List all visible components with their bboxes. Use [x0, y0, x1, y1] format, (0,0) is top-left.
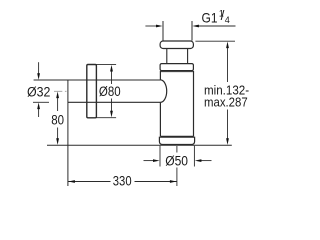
arrowhead: Ø80 down: [110, 111, 113, 118]
component: trap body cup left side with inlet bulge: [160, 71, 166, 136]
component: top flange of trap: [160, 41, 193, 49]
arrowhead: min-max down: [226, 138, 229, 145]
arrowhead: G1 left pointing right: [156, 25, 163, 28]
wire: pipe end vertical + 330 left extension line: [67, 80, 69, 186]
component: thread pipe G1 1/4 (left line): [162, 21, 164, 41]
dimension G1 1/4: left arrow line: [145, 25, 156, 27]
wire: body shoulder line under nut: [160, 71, 193, 73]
label G1 1/4: [202, 8, 230, 26]
dimension 80: lower shaft: [57, 128, 59, 139]
svg-text:G1: G1: [202, 10, 218, 26]
node: pipe centerline (dash-dot): [54, 90, 67, 92]
label 330: [111, 174, 135, 189]
dimension 330: dimension line: [68, 181, 177, 183]
arrowhead: Ø50 right pointing left: [195, 159, 202, 162]
wire: bottom reference line: [47, 144, 232, 146]
dimension min-max: lower shaft: [227, 110, 229, 140]
label Ø50: [164, 153, 191, 169]
component: neck between flange and nut: [167, 49, 188, 64]
arrowhead: 330 right: [170, 180, 177, 183]
dimension Ø32: lower arrow shaft: [38, 109, 40, 118]
wire: wall pipe bottom line: [68, 101, 160, 103]
dimension Ø50: right arrow line: [201, 160, 212, 162]
dimension Ø50: left extension line: [159, 146, 161, 167]
arrowhead: Ø80 up: [110, 65, 113, 72]
dimension min-max: upper shaft: [227, 48, 229, 83]
arrowhead: Ø50 left pointing right: [153, 159, 160, 162]
dimension Ø50: right extension line: [193, 146, 195, 167]
component: trap body cup right side: [193, 71, 195, 136]
dimension min-max: top extension line: [195, 40, 235, 42]
wire: wall pipe top line with Ø32 top extension: [34, 79, 161, 81]
dimension Ø80: bottom extension line: [96, 117, 116, 119]
dimension Ø80: top extension line: [96, 63, 116, 65]
dimension 330: right extension line: [176, 146, 178, 186]
component: thread pipe G1 1/4 (right line): [191, 21, 193, 41]
label Ø80: [97, 84, 122, 99]
dimension Ø80: upper shaft: [111, 71, 113, 84]
wire: Ø32 bottom extension line: [33, 101, 49, 103]
label Ø32: [26, 84, 53, 99]
svg-text:4: 4: [225, 15, 230, 25]
component: union nut: [160, 64, 193, 71]
arrowhead: 330 left: [68, 180, 75, 183]
component: bottom rim cap Ø50: [159, 137, 194, 144]
arrowhead: Ø32 down at pipe top: [37, 73, 40, 80]
svg-text:max.287: max.287: [204, 94, 248, 109]
arrowhead: 80 down at reference line: [56, 138, 59, 145]
arrowhead: Ø32 up at pipe bottom: [37, 103, 40, 110]
dimension 80: upper shaft: [57, 98, 59, 112]
svg-text:Ø50: Ø50: [165, 153, 188, 168]
wire: cup bottom line: [160, 135, 193, 137]
svg-text:330: 330: [113, 174, 132, 189]
dimension Ø80: lower shaft: [111, 99, 113, 112]
svg-text:80: 80: [51, 112, 64, 127]
label 80: [50, 112, 66, 127]
svg-text:Ø80: Ø80: [99, 84, 121, 99]
dimension Ø32: upper arrow shaft: [38, 62, 40, 73]
svg-text:Ø32: Ø32: [27, 84, 50, 99]
arrowhead: G1 right pointing left: [192, 25, 199, 28]
arrowhead: min-max up: [226, 42, 229, 49]
arrowhead: 80 up at centerline: [56, 92, 59, 99]
dimension G1 1/4: right arrow line: [199, 25, 236, 27]
component: wall rosette Ø80 flange: [87, 65, 97, 118]
dimension Ø50: left arrow line: [144, 160, 155, 162]
